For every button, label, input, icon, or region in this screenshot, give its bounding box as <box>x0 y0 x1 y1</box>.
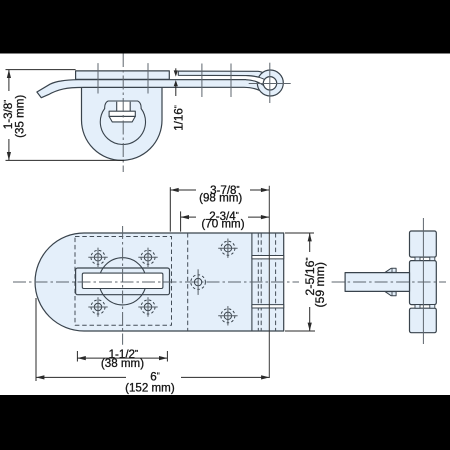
svg-text:(35 mm): (35 mm) <box>14 95 27 138</box>
hinge strip dashed line c <box>275 233 277 331</box>
dimension 1/16" lower arrow <box>175 86 177 96</box>
stem side walls <box>117 102 131 112</box>
eye vertical centerline <box>269 63 271 103</box>
keyhole slot shoulder band (white) <box>109 111 135 116</box>
knuckle middle <box>410 261 437 305</box>
main plate with rounded left end <box>35 233 284 331</box>
dimension 1-3/8" line lower segment <box>8 139 10 160</box>
gap tab 2b <box>430 305 435 309</box>
dimension 3-7/8 extension line left <box>169 187 171 231</box>
hinge eye outer ring (side view) <box>257 70 283 96</box>
slot hole (white) <box>82 273 163 288</box>
main vertical centerline of staple <box>122 53 124 172</box>
slot guard plate <box>76 268 170 295</box>
dimension 2-3/4 extension line left <box>180 211 182 231</box>
arrow up 1-3/8 <box>7 70 11 78</box>
dimension 6 extension line left <box>35 298 37 381</box>
knuckle slot upper (white) <box>252 256 284 259</box>
wedge outline upper <box>246 76 265 80</box>
dimension 1/16" upper arrow <box>175 68 177 72</box>
bottom black band <box>0 395 450 450</box>
white wedge between keep bar and strap <box>246 76 265 86</box>
screw hole A (98,257.3) <box>88 248 107 267</box>
arrow down 1-3/8 <box>7 152 11 160</box>
horizontal centerline right part <box>332 281 446 283</box>
dimension 2-3/4 line <box>181 216 196 218</box>
knuckle bottom <box>410 308 437 333</box>
gap tab 1b <box>430 257 435 261</box>
eye horizontal centerline <box>249 83 291 85</box>
screw centerline tick x=201.9 (side view) <box>201 64 203 98</box>
dimension 2-5/16 extension top <box>285 232 314 234</box>
dimension 1-3/8" extension line top <box>6 69 76 71</box>
screw hole B (148,257.3) <box>138 248 157 267</box>
keyhole slot stem (white) <box>117 102 131 112</box>
screw hole D (148,307) <box>138 297 157 316</box>
screw hole E center (198.1,282.1) <box>191 269 206 295</box>
dimension 1-1/2 stub right <box>166 351 168 362</box>
upper tab post edge <box>391 268 393 272</box>
lower tab post edge <box>391 292 393 296</box>
wedge outline lower <box>246 80 264 86</box>
plan vertical centerline <box>122 226 124 345</box>
strap with left hook (side view) <box>37 80 264 98</box>
knuckle top <box>410 231 437 257</box>
staple mount body (side view) <box>82 87 163 160</box>
dimension 2-5/16 extension bottom <box>285 330 315 332</box>
hidden edge dashed line <box>187 233 189 331</box>
dimension 6 line <box>36 376 126 378</box>
hidden base plate dashed rectangle <box>75 237 172 326</box>
dimension 1-1/2 line <box>77 357 167 359</box>
horizontal centerline left part <box>13 281 299 283</box>
dimension 2-5/16 line <box>309 233 311 252</box>
svg-text:(59 mm): (59 mm) <box>313 262 327 307</box>
hinge strip dashed line b <box>260 233 262 331</box>
dimension 1-1/2 stub left <box>76 351 78 362</box>
keyhole boss with flat top <box>100 101 145 144</box>
hinge eye inner hole <box>263 77 276 90</box>
dimension 1-3/8" line upper segment <box>8 70 10 91</box>
screw centerline tick x=231 (side view) <box>230 64 232 98</box>
end view vertical centerline <box>422 218 424 344</box>
strap upper tab <box>385 268 396 272</box>
keep bar (side view right) <box>178 71 266 79</box>
svg-text:(152 mm): (152 mm) <box>125 382 175 395</box>
fixed plate (side view) <box>76 71 170 79</box>
hinge strip dashed line a <box>257 233 259 331</box>
screw centerline tick x=148 (side view) <box>147 63 149 93</box>
svg-text:(98 mm): (98 mm) <box>199 192 242 205</box>
gap tab 2a <box>415 305 420 309</box>
keyhole slot bowl (white) <box>109 116 135 122</box>
svg-text:1/16": 1/16" <box>172 105 185 131</box>
end view strap <box>345 273 409 292</box>
screw centerline tick x=98 (side view) <box>97 63 99 93</box>
gap tab 1a <box>415 257 420 261</box>
screw hole G (227.9,315.8) <box>218 306 237 325</box>
top black band <box>0 0 450 54</box>
hinge strip vertical solid line <box>251 233 253 331</box>
svg-text:(38 mm): (38 mm) <box>101 357 144 370</box>
hinge pin line / shared extension line <box>268 186 270 378</box>
svg-text:(70 mm): (70 mm) <box>201 218 244 231</box>
strap lower tab <box>385 292 396 296</box>
staple ring circle (plan) <box>99 258 146 305</box>
screw hole C (98,307) <box>88 297 107 316</box>
dimension 3-7/8 line <box>170 189 196 191</box>
white drawing background <box>0 53 450 395</box>
dimension 1-3/8" extension line bottom <box>6 159 125 161</box>
screw hole F (227.9,248.2) <box>218 239 237 258</box>
knuckle slot lower (white) <box>252 305 284 308</box>
